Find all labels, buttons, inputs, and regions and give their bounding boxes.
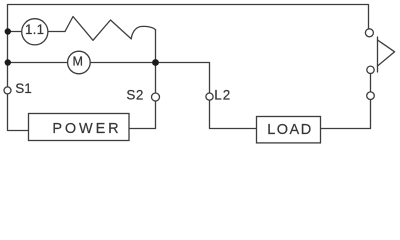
POWER box xyxy=(29,114,130,141)
svg-text:POWER: POWER xyxy=(52,121,121,137)
wire branch to indicator 1.1 xyxy=(8,31,22,33)
wire motor to node B xyxy=(90,62,155,64)
svg-text:L2: L2 xyxy=(214,87,231,102)
terminal S2 xyxy=(152,93,160,101)
svg-text:M: M xyxy=(72,55,83,69)
wire indicator to resistor xyxy=(48,31,65,33)
wire motor branch left xyxy=(8,62,68,64)
svg-text:S1: S1 xyxy=(15,81,32,96)
node B junction dot xyxy=(152,59,159,66)
wire node B to terminal L2 xyxy=(156,63,210,94)
motor M1 circle xyxy=(68,51,91,74)
svg-text:LOAD: LOAD xyxy=(267,122,313,138)
svg-text:S2: S2 xyxy=(126,87,144,102)
wire S1 to POWER box xyxy=(8,94,29,131)
tester terminal T1 xyxy=(365,29,373,37)
node A junction dot xyxy=(5,28,11,34)
svg-text:1.1: 1.1 xyxy=(25,22,44,37)
node C junction dot xyxy=(5,59,11,65)
wire LOAD box to tester terminal column xyxy=(321,100,371,129)
tester probe bar xyxy=(377,37,379,72)
LOAD box xyxy=(257,117,321,143)
wire tester terminal T3 to T2 xyxy=(370,74,372,92)
terminal L2 xyxy=(206,93,213,100)
wire top bus (left riser, top run, right drop to tester terminal) xyxy=(8,5,369,88)
wire POWER box to S2 xyxy=(129,101,156,129)
resistor R xyxy=(65,17,156,41)
wire L2 to LOAD box xyxy=(210,100,257,128)
terminal S1 xyxy=(4,87,11,94)
tester terminal T2 xyxy=(367,66,374,73)
tester terminal T3 xyxy=(367,92,375,100)
tester triangle xyxy=(378,40,395,66)
indicator U1 circle (1.1) xyxy=(22,19,48,45)
wire resistor drop to node B xyxy=(155,30,157,63)
wire node B down to terminal S2 xyxy=(155,63,157,94)
